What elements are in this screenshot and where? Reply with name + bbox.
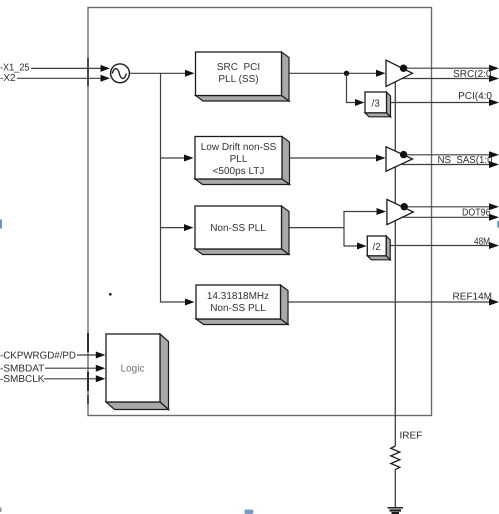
- wire drop to /2 divider: [344, 228, 359, 246]
- arrowhead DOT96 complement: [489, 214, 499, 221]
- resistor R-IREF: [391, 446, 400, 470]
- svg-text:/3: /3: [372, 98, 381, 109]
- block U1 SRC PCI PLL (SS): [196, 52, 290, 101]
- wire Non-SS PLL output: [285, 227, 344, 229]
- arrowhead X2 into oscillator: [101, 75, 111, 82]
- svg-text:-CKPWRGD#/PD: -CKPWRGD#/PD: [0, 350, 76, 361]
- svg-text:-SMBDAT: -SMBDAT: [0, 364, 44, 375]
- buffer SRC output: [386, 60, 413, 86]
- wire oscillator output to SRC PLL: [130, 72, 187, 74]
- svg-text:-X1_25: -X1_25: [0, 62, 30, 73]
- svg-text:<500ps LTJ: <500ps LTJ: [213, 166, 265, 177]
- arrowhead DOT96 true: [489, 203, 499, 210]
- arrowhead SRC true: [489, 65, 499, 72]
- svg-text:-X2: -X2: [0, 73, 16, 84]
- svg-text:Low Drift non-SS: Low Drift non-SS: [201, 142, 277, 153]
- arrowhead SRC complement: [489, 75, 499, 82]
- arrowhead REF14M: [489, 299, 499, 306]
- block U5 Logic: [106, 334, 169, 410]
- wire SMBCLK input: [44, 378, 98, 380]
- arrowhead X1 into oscillator: [101, 65, 111, 72]
- arrowhead into DOT96 buffer: [377, 208, 387, 215]
- wire SRC PLL output to buffer: [285, 72, 378, 74]
- wire IREF rail: [394, 82, 396, 446]
- chip boundary box: [88, 8, 432, 416]
- arrowhead into Low Drift PLL: [184, 155, 194, 162]
- chip border dark segment near oscillator: [87, 58, 89, 86]
- wire bus branch to Non-SS PLL: [161, 227, 187, 229]
- arrowhead into SRC PLL: [185, 70, 195, 77]
- wire NS_SAS complement output: [402, 164, 491, 166]
- wire SMBDAT input: [45, 367, 98, 369]
- wire vertical clock bus: [161, 73, 188, 302]
- block U4 14.31818MHz Non-SS PLL: [196, 285, 288, 325]
- wire X2 input: [17, 77, 103, 79]
- wire REF14M output: [288, 301, 491, 303]
- arrowhead into NS_SAS buffer: [376, 155, 386, 162]
- block U2 Low Drift non-SS PLL: [195, 137, 290, 185]
- arrowhead into Non-SS PLL: [184, 224, 194, 231]
- chip border dark segment upper logic: [87, 333, 89, 352]
- artifact blue bottom scrollbar blob: [244, 510, 253, 514]
- wire SRC(2:0 complement output: [402, 78, 491, 80]
- svg-text:PCI(4:0: PCI(4:0: [458, 91, 492, 102]
- arrowhead into Logic SMBDAT: [96, 365, 106, 372]
- wire DOT96 complement output: [403, 216, 492, 218]
- svg-text:-SMBCLK: -SMBCLK: [0, 374, 45, 385]
- ground: [388, 508, 404, 514]
- svg-text:SRC PCI: SRC PCI: [217, 62, 260, 73]
- svg-text:Non-SS PLL: Non-SS PLL: [210, 303, 266, 314]
- buffer NS_SAS output: [386, 147, 413, 171]
- junction dot SRC output: [344, 71, 349, 76]
- arrowhead into /3 divider: [355, 99, 365, 106]
- svg-text:REF14M: REF14M: [453, 292, 492, 303]
- svg-text:Logic: Logic: [121, 364, 145, 375]
- svg-text:SRC(2:0: SRC(2:0: [453, 69, 492, 80]
- wire CKPWRGD#/PD input: [77, 354, 98, 356]
- svg-text:48M: 48M: [474, 237, 490, 248]
- arrowhead into /2 divider: [357, 243, 367, 250]
- arrowhead NS_SAS true: [489, 151, 499, 158]
- wire 48M output: [391, 245, 492, 247]
- divider /3: [365, 92, 391, 117]
- svg-text:Non-SS PLL: Non-SS PLL: [210, 223, 266, 234]
- arrowhead 48M: [489, 242, 499, 249]
- wire PCI(4:0 output: [391, 102, 492, 104]
- wire NS_SAS true output: [405, 154, 491, 156]
- wire Low Drift PLL output to NS_SAS buffer: [285, 157, 378, 159]
- svg-text:PLL (SS): PLL (SS): [218, 74, 258, 85]
- block U3 Non-SS PLL: [195, 206, 289, 255]
- svg-text:NS_SAS(1:0: NS_SAS(1:0: [438, 155, 493, 166]
- arrowhead into SRC buffer: [376, 70, 386, 77]
- wire SRC(2:0 true output: [405, 67, 491, 69]
- wire DOT96 true output: [406, 206, 492, 208]
- chip border dark segment above corner: [87, 395, 89, 404]
- svg-text:DOT96: DOT96: [462, 207, 491, 218]
- arrowhead into Logic SMBCLK: [96, 375, 106, 382]
- artifact ink speck: [109, 293, 112, 296]
- arrowhead into Logic CKPWRGD: [96, 352, 106, 359]
- arrowhead PCI(4:0: [489, 99, 499, 106]
- artifact grey bottom-left: [0, 508, 2, 513]
- arrowhead into 14.31818MHz PLL: [185, 299, 195, 306]
- svg-text:IREF: IREF: [400, 431, 423, 442]
- artifact blue left: [0, 220, 2, 229]
- chip border dark segment lower logic: [87, 372, 89, 391]
- svg-text:14.31818MHz: 14.31818MHz: [207, 291, 269, 302]
- svg-text:PLL: PLL: [230, 154, 248, 165]
- svg-text:/2: /2: [373, 242, 382, 253]
- wire X1 input: [31, 67, 103, 69]
- buffer DOT96 output: [387, 199, 413, 224]
- crystal oscillator symbol: [111, 64, 130, 83]
- wire SRC branch down to /3: [347, 73, 358, 102]
- wire bus branch to Low Drift PLL: [161, 157, 187, 159]
- wire riser to DOT96 buffer: [344, 212, 379, 228]
- divider /2: [367, 236, 390, 260]
- artifact blue right: [497, 221, 499, 228]
- arrowhead NS_SAS complement: [489, 161, 499, 168]
